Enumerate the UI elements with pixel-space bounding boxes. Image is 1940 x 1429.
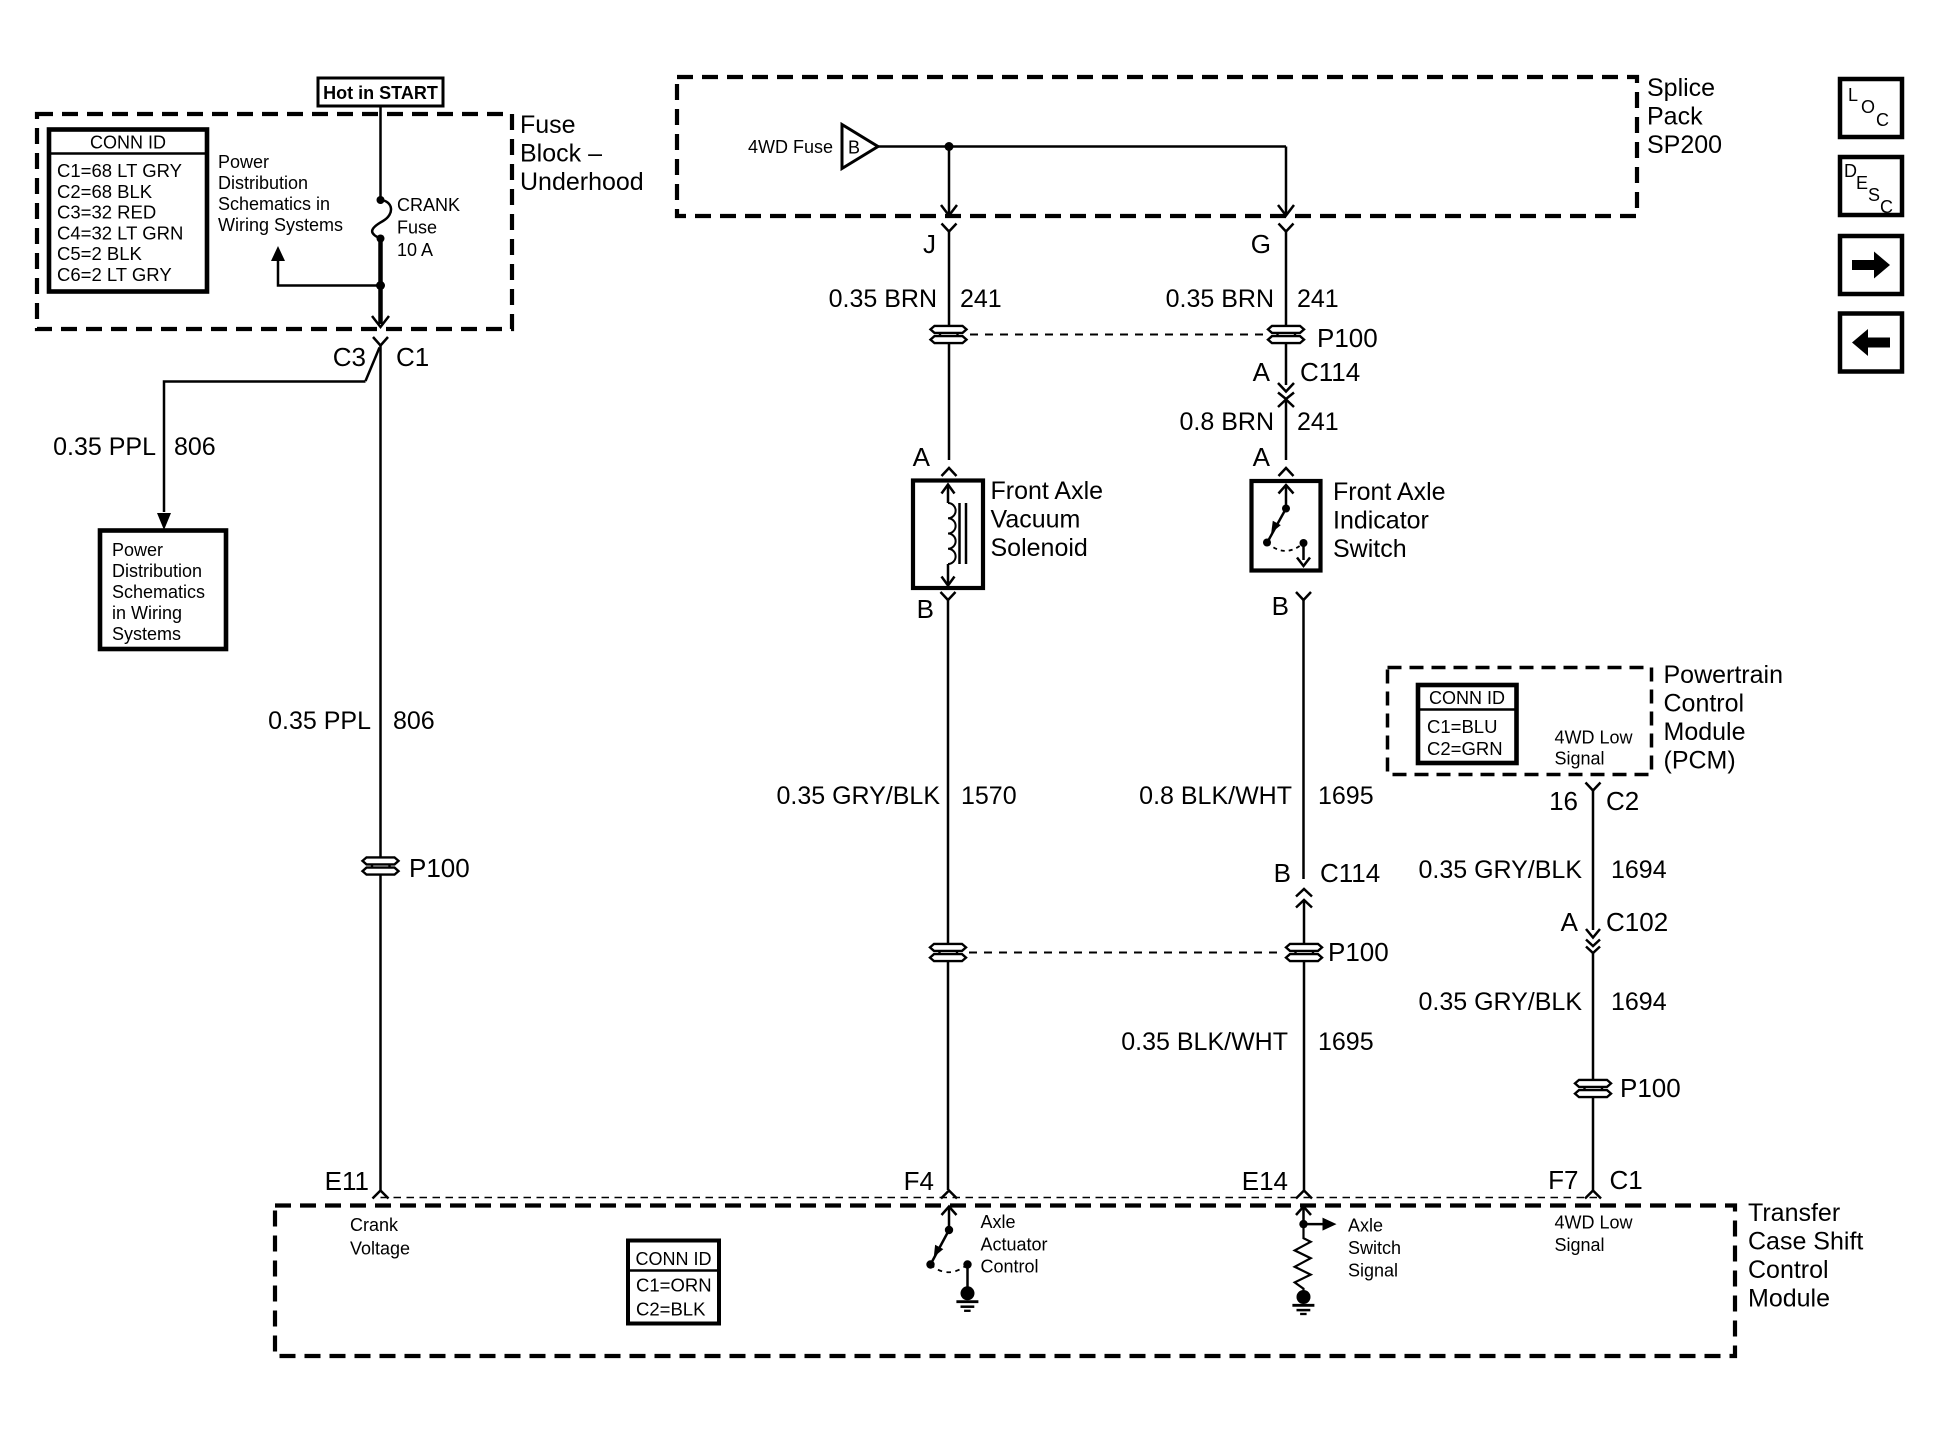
- switch pin B: [1272, 591, 1311, 621]
- svg-text:B: B: [917, 594, 934, 624]
- svg-text:Front Axle: Front Axle: [991, 477, 1104, 505]
- svg-text:S: S: [1868, 185, 1880, 205]
- wire below C102: [1592, 953, 1595, 1080]
- svg-text:Underhood: Underhood: [520, 168, 644, 196]
- branch wire to Power Distribution box: [157, 382, 366, 531]
- pin G: [1251, 224, 1294, 260]
- wire to E11: [379, 875, 382, 1190]
- svg-text:Actuator: Actuator: [981, 1235, 1048, 1255]
- svg-text:A: A: [1561, 907, 1579, 937]
- svg-text:A: A: [1253, 442, 1271, 472]
- branch with up arrow to note: [271, 246, 381, 286]
- label Axle Switch Signal: [1348, 1216, 1401, 1281]
- note Power Distribution Schematics in Wiring Systems: [218, 152, 343, 235]
- button back arrow: [1840, 314, 1902, 372]
- svg-text:C1=ORN: C1=ORN: [636, 1275, 712, 1296]
- connector C102 pin A: [1561, 907, 1669, 953]
- svg-text:C1=68 LT GRY: C1=68 LT GRY: [57, 160, 182, 181]
- svg-text:241: 241: [960, 285, 1002, 313]
- wire below C114 B: [1303, 900, 1306, 944]
- wire label 0.35 GRY/BLK 1694 (upper): [1418, 856, 1666, 884]
- wire G down: [1285, 232, 1288, 331]
- switch pin A: [1253, 442, 1294, 476]
- svg-text:Case Shift: Case Shift: [1748, 1228, 1863, 1256]
- svg-text:4WD Low: 4WD Low: [1555, 1213, 1634, 1233]
- svg-text:C6=2 LT GRY: C6=2 LT GRY: [57, 264, 172, 285]
- wire label 0.8 BLK/WHT 1695: [1139, 782, 1373, 810]
- label Fuse Block - Underhood: [520, 111, 644, 196]
- svg-text:Signal: Signal: [1555, 1235, 1605, 1255]
- pin 16 C2: [1549, 783, 1639, 817]
- svg-text:CRANK: CRANK: [397, 195, 460, 215]
- dashed tie line between P100 halves: [970, 334, 1264, 336]
- svg-text:SP200: SP200: [1647, 131, 1722, 159]
- svg-text:Pack: Pack: [1647, 103, 1703, 131]
- junction dot: [376, 281, 385, 290]
- connector P100 on left wire: [363, 853, 470, 883]
- E14 internal resistor to ground: [1295, 1207, 1337, 1291]
- connector C114 pin B: [1274, 858, 1381, 908]
- wire switch B down: [1302, 600, 1305, 879]
- connector P100 pair upper: [931, 326, 967, 343]
- svg-text:C2: C2: [1606, 786, 1639, 816]
- dashed tie line between lower P100 halves: [969, 952, 1283, 954]
- svg-text:Schematics in: Schematics in: [218, 194, 330, 214]
- svg-text:CONN ID: CONN ID: [90, 133, 166, 153]
- svg-text:C2=BLK: C2=BLK: [636, 1299, 706, 1320]
- CONN ID table (PCM): [1418, 685, 1517, 763]
- svg-text:B: B: [848, 138, 860, 158]
- wire solenoid B to F4: [947, 961, 950, 1190]
- svg-text:C1: C1: [1610, 1165, 1643, 1195]
- wire label 0.35 BLK/WHT 1695: [1121, 1028, 1373, 1056]
- svg-text:Splice: Splice: [1647, 74, 1715, 102]
- open arrow at fuse block exit: [372, 316, 389, 327]
- svg-text:0.35 PPL: 0.35 PPL: [268, 707, 371, 735]
- svg-text:(PCM): (PCM): [1664, 747, 1736, 775]
- svg-text:C1: C1: [396, 342, 429, 372]
- wire label 0.35 BRN 241 (J): [829, 285, 1002, 313]
- svg-text:F4: F4: [904, 1166, 934, 1196]
- svg-text:C4=32 LT GRN: C4=32 LT GRN: [57, 222, 183, 243]
- connector P100 pair lower: [930, 944, 966, 961]
- svg-text:B: B: [1272, 591, 1289, 621]
- power feed box "Hot in START": [318, 78, 443, 106]
- ground at F4: [956, 1286, 978, 1311]
- label Crank Voltage: [350, 1215, 410, 1259]
- CONN ID table (fuse block): [49, 130, 207, 292]
- pin F7 C1: [1548, 1165, 1643, 1199]
- svg-text:CONN ID: CONN ID: [1429, 688, 1505, 708]
- splice wire horizontal: [878, 145, 1286, 148]
- svg-text:Control: Control: [1748, 1256, 1829, 1284]
- svg-text:Power: Power: [218, 152, 269, 172]
- connector C114 pin A: [1253, 357, 1361, 407]
- 4WD Fuse feed triangle B: [748, 125, 878, 169]
- svg-text:Module: Module: [1748, 1285, 1830, 1313]
- svg-text:C102: C102: [1606, 907, 1668, 937]
- svg-text:C5=2 BLK: C5=2 BLK: [57, 243, 143, 264]
- transfer case dashed box: [275, 1206, 1735, 1357]
- wire to F7: [1592, 1097, 1595, 1190]
- svg-text:Indicator: Indicator: [1333, 507, 1429, 535]
- svg-text:0.35 GRY/BLK: 0.35 GRY/BLK: [1418, 856, 1582, 884]
- svg-text:0.35 GRY/BLK: 0.35 GRY/BLK: [1418, 988, 1582, 1016]
- switch S1 Front Axle Indicator Switch: [1252, 481, 1321, 571]
- wire label 0.35 GRY/BLK 1570: [776, 782, 1016, 810]
- PCM dashed box: [1388, 668, 1652, 775]
- button LOC: [1840, 79, 1902, 137]
- svg-text:in Wiring: in Wiring: [112, 603, 182, 623]
- svg-text:0.35 BRN: 0.35 BRN: [1166, 285, 1274, 313]
- svg-text:Signal: Signal: [1555, 749, 1605, 769]
- solenoid pin A: [913, 442, 957, 476]
- label Splice Pack SP200: [1647, 74, 1722, 159]
- svg-text:Switch: Switch: [1348, 1238, 1401, 1258]
- svg-text:Module: Module: [1664, 718, 1746, 746]
- svg-text:C2=68 BLK: C2=68 BLK: [57, 181, 153, 202]
- svg-text:Solenoid: Solenoid: [991, 534, 1088, 562]
- svg-text:Block –: Block –: [520, 140, 602, 168]
- svg-text:E14: E14: [1242, 1166, 1288, 1196]
- junction dot splice: [945, 142, 954, 151]
- wire label 0.35 PPL 806 (branch): [53, 433, 216, 461]
- svg-text:Signal: Signal: [1348, 1261, 1398, 1281]
- wire label 0.35 PPL 806 (main): [268, 707, 435, 735]
- svg-text:Crank: Crank: [350, 1215, 399, 1235]
- pin J: [923, 224, 957, 260]
- svg-text:C: C: [1880, 197, 1893, 217]
- svg-text:G: G: [1251, 229, 1271, 259]
- wire below C114: [1285, 400, 1288, 461]
- solenoid pin B: [917, 592, 956, 624]
- svg-text:Hot in START: Hot in START: [323, 83, 438, 103]
- pin E11: [325, 1166, 389, 1199]
- svg-text:P100: P100: [409, 853, 470, 883]
- wire J down: [948, 232, 951, 331]
- wire label 0.35 BRN 241 (G): [1166, 285, 1339, 313]
- svg-text:241: 241: [1297, 285, 1339, 313]
- svg-text:Distribution: Distribution: [218, 173, 308, 193]
- svg-text:Fuse: Fuse: [397, 218, 437, 238]
- svg-text:C: C: [1876, 110, 1889, 130]
- svg-text:0.35 BRN: 0.35 BRN: [829, 285, 937, 313]
- button next arrow: [1840, 236, 1902, 294]
- pin E14: [1242, 1166, 1312, 1199]
- thin dashed connector face line: [381, 1197, 1602, 1199]
- svg-text:806: 806: [174, 433, 216, 461]
- solenoid L1 Front Axle Vacuum Solenoid: [913, 481, 983, 589]
- svg-text:L: L: [1848, 85, 1858, 105]
- svg-text:P100: P100: [1328, 937, 1389, 967]
- svg-text:Powertrain: Powertrain: [1664, 661, 1784, 689]
- svg-text:0.35 PPL: 0.35 PPL: [53, 433, 156, 461]
- ground at E14: [1292, 1290, 1314, 1314]
- wire J P100 down to solenoid A: [948, 344, 951, 460]
- svg-text:Power: Power: [112, 540, 163, 560]
- thick wire below fuse: [378, 239, 383, 325]
- svg-text:C3=32 RED: C3=32 RED: [57, 202, 156, 223]
- svg-text:O: O: [1861, 97, 1875, 117]
- label Transfer Case Shift Control Module: [1748, 1199, 1863, 1313]
- fuse CRANK Fuse 10 A: [372, 196, 391, 243]
- svg-text:0.8 BRN: 0.8 BRN: [1180, 408, 1274, 436]
- svg-text:Front Axle: Front Axle: [1333, 478, 1446, 506]
- splice pack dashed box: [677, 77, 1637, 216]
- svg-text:Transfer: Transfer: [1748, 1199, 1840, 1227]
- wire switch B to E14: [1303, 961, 1306, 1190]
- svg-text:A: A: [913, 442, 931, 472]
- svg-text:Wiring Systems: Wiring Systems: [218, 215, 343, 235]
- svg-text:Axle: Axle: [1348, 1216, 1383, 1236]
- connector P100 on PCM wire: [1575, 1073, 1681, 1103]
- label 4WD Low Signal (transfer case): [1555, 1213, 1634, 1256]
- svg-text:E: E: [1856, 173, 1868, 193]
- F4 internal switch: [926, 1207, 971, 1288]
- wire label 0.8 BRN 241: [1180, 408, 1339, 436]
- svg-text:806: 806: [393, 707, 435, 735]
- svg-text:1570: 1570: [961, 782, 1017, 810]
- svg-text:Fuse: Fuse: [520, 111, 576, 139]
- svg-text:C1=BLU: C1=BLU: [1427, 716, 1497, 737]
- svg-text:P100: P100: [1317, 323, 1378, 353]
- svg-text:F7: F7: [1548, 1165, 1578, 1195]
- wire label 0.35 GRY/BLK 1694 (lower): [1418, 988, 1666, 1016]
- label Powertrain Control Module (PCM): [1664, 661, 1784, 775]
- svg-text:Systems: Systems: [112, 624, 181, 644]
- svg-text:Switch: Switch: [1333, 535, 1407, 563]
- svg-text:10 A: 10 A: [397, 240, 433, 260]
- svg-text:Control: Control: [1664, 690, 1745, 718]
- svg-text:241: 241: [1297, 408, 1339, 436]
- svg-text:Axle: Axle: [981, 1212, 1016, 1232]
- svg-text:0.8 BLK/WHT: 0.8 BLK/WHT: [1139, 782, 1292, 810]
- svg-text:0.35 GRY/BLK: 0.35 GRY/BLK: [776, 782, 940, 810]
- svg-text:1695: 1695: [1318, 782, 1374, 810]
- wire drop G: [1278, 147, 1294, 216]
- wire from Hot in START into fuse block: [379, 106, 382, 199]
- wire PCM down: [1592, 791, 1595, 931]
- svg-text:C2=GRN: C2=GRN: [1427, 738, 1503, 759]
- label 4WD Low Signal (PCM): [1555, 728, 1634, 769]
- wire drop J: [941, 147, 957, 216]
- svg-text:1694: 1694: [1611, 988, 1667, 1016]
- svg-text:E11: E11: [325, 1166, 369, 1196]
- svg-text:C3: C3: [333, 342, 366, 372]
- svg-text:Vacuum: Vacuum: [991, 506, 1081, 534]
- wire C1 down to E11: [379, 346, 382, 858]
- svg-text:C114: C114: [1300, 357, 1360, 387]
- svg-text:Distribution: Distribution: [112, 561, 202, 581]
- svg-text:A: A: [1253, 357, 1271, 387]
- svg-text:CONN ID: CONN ID: [636, 1249, 712, 1269]
- Power Distribution Schematics in Wiring Systems box: [100, 531, 226, 650]
- svg-text:Schematics: Schematics: [112, 582, 205, 602]
- CONN ID table (transfer case): [628, 1241, 719, 1324]
- svg-text:C114: C114: [1320, 858, 1380, 888]
- svg-text:4WD Fuse: 4WD Fuse: [748, 137, 833, 157]
- connector C3/C1 below fuse block: [333, 337, 430, 381]
- wire G P100 down to C114: [1285, 344, 1288, 385]
- svg-text:J: J: [923, 229, 936, 259]
- svg-text:Voltage: Voltage: [350, 1239, 410, 1259]
- pin F4: [904, 1166, 957, 1199]
- button DESC: [1840, 157, 1902, 217]
- svg-text:Control: Control: [981, 1257, 1039, 1277]
- svg-text:P100: P100: [1620, 1073, 1681, 1103]
- svg-text:1695: 1695: [1318, 1028, 1374, 1056]
- svg-text:4WD Low: 4WD Low: [1555, 728, 1634, 748]
- fuse block dashed box: [37, 114, 512, 329]
- svg-text:1694: 1694: [1611, 856, 1667, 884]
- svg-text:16: 16: [1549, 786, 1578, 816]
- label Axle Actuator Control: [981, 1212, 1048, 1277]
- svg-text:B: B: [1274, 858, 1291, 888]
- svg-text:0.35 BLK/WHT: 0.35 BLK/WHT: [1121, 1028, 1288, 1056]
- wire solenoid B down: [947, 600, 950, 943]
